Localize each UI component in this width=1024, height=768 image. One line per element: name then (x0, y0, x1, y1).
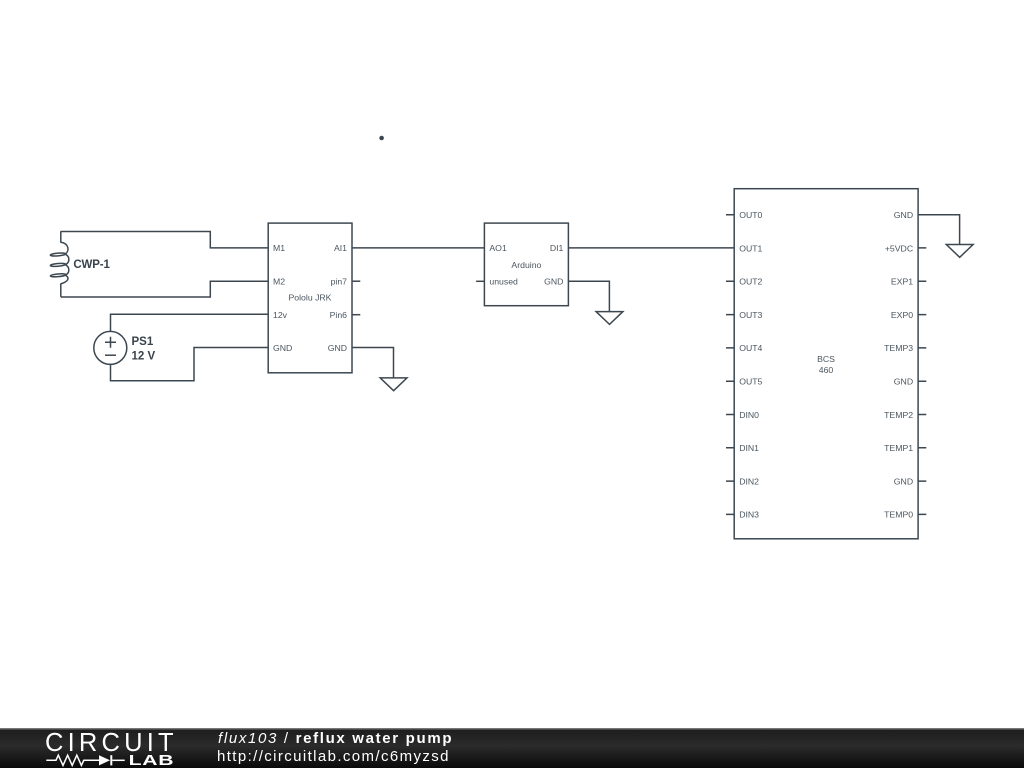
svg-text:OUT0: OUT0 (739, 210, 762, 220)
svg-text:460: 460 (819, 365, 834, 375)
svg-text:pin7: pin7 (331, 276, 348, 286)
svg-text:EXP0: EXP0 (891, 310, 913, 320)
wire AI1 to AO1 (352, 247, 484, 249)
ground symbol (Arduino) (596, 312, 623, 325)
diode triangle (99, 755, 110, 765)
PS1 minus sign (105, 354, 116, 356)
footer bar (0, 728, 1024, 768)
diode cathode bar (110, 755, 112, 765)
svg-text:12 V: 12 V (132, 350, 156, 362)
pin stubs BCS left (726, 215, 734, 515)
svg-text:unused: unused (489, 277, 518, 287)
ground symbol (BCS) (946, 245, 973, 258)
pin stub Pin6 (352, 314, 360, 316)
IC Pololu JRK body (268, 223, 352, 373)
wire PS1 plus to 12v (111, 314, 269, 331)
wire JRK GND to ground (352, 348, 394, 378)
pump coil CWP-1 (inductor) (61, 231, 69, 297)
coil loop ellipse 2 (50, 263, 66, 267)
svg-text:M1: M1 (273, 243, 285, 253)
CircuitLab logo (38, 728, 228, 768)
wire BCS GND to ground (918, 215, 960, 245)
svg-text:GND: GND (894, 476, 913, 486)
pin stub pin7 (352, 280, 360, 282)
wire CWP-1 top to M1 (61, 232, 268, 248)
wire CWP-1 bottom to M2 (61, 281, 268, 297)
svg-text:DIN1: DIN1 (739, 443, 759, 453)
stray node dot (379, 136, 384, 141)
svg-text:EXP1: EXP1 (891, 277, 913, 287)
ground symbol (JRK) (380, 378, 407, 391)
svg-text:GND: GND (328, 343, 347, 353)
svg-text:AO1: AO1 (489, 243, 507, 253)
svg-text:GND: GND (544, 277, 563, 287)
svg-text:12v: 12v (273, 310, 288, 320)
svg-text:GND: GND (894, 210, 913, 220)
svg-text:Pololu JRK: Pololu JRK (289, 293, 332, 303)
svg-text:PS1: PS1 (132, 336, 154, 348)
svg-text:AI1: AI1 (334, 243, 347, 253)
IC BCS 460 body (734, 189, 918, 539)
wire Arduino GND to ground (568, 281, 609, 311)
svg-text:OUT4: OUT4 (739, 343, 762, 353)
diode leads (112, 759, 124, 761)
svg-text:M2: M2 (273, 276, 285, 286)
svg-text:DI1: DI1 (550, 243, 564, 253)
svg-text:OUT2: OUT2 (739, 277, 762, 287)
wire DI1 to OUT1 (568, 247, 734, 249)
svg-text:TEMP2: TEMP2 (884, 410, 913, 420)
pin stub unused (476, 280, 484, 282)
IC Arduino body (484, 223, 568, 306)
svg-text:TEMP3: TEMP3 (884, 343, 913, 353)
PS1 plus sign (105, 337, 116, 348)
svg-text:TEMP1: TEMP1 (884, 443, 913, 453)
coil loop ellipse 1 (50, 252, 66, 256)
svg-text:DIN3: DIN3 (739, 510, 759, 520)
svg-text:Arduino: Arduino (511, 260, 541, 270)
coil loop ellipse 3 (50, 273, 66, 277)
svg-text:OUT5: OUT5 (739, 377, 762, 387)
svg-text:DIN2: DIN2 (739, 476, 759, 486)
svg-text:CWP-1: CWP-1 (73, 259, 110, 271)
svg-text:BCS: BCS (817, 354, 835, 364)
wire PS1 minus to JRK GND (111, 348, 269, 381)
svg-text:+5VDC: +5VDC (885, 243, 913, 253)
svg-text:OUT1: OUT1 (739, 243, 762, 253)
svg-text:LAB: LAB (129, 752, 175, 768)
resistor zigzag (46, 755, 99, 765)
svg-text:GND: GND (273, 343, 292, 353)
svg-text:TEMP0: TEMP0 (884, 510, 913, 520)
svg-text:OUT3: OUT3 (739, 310, 762, 320)
svg-text:GND: GND (894, 377, 913, 387)
svg-text:DIN0: DIN0 (739, 410, 759, 420)
svg-text:Pin6: Pin6 (330, 310, 348, 320)
voltage source PS1 circle (94, 331, 127, 364)
pin stubs BCS right (918, 248, 926, 515)
